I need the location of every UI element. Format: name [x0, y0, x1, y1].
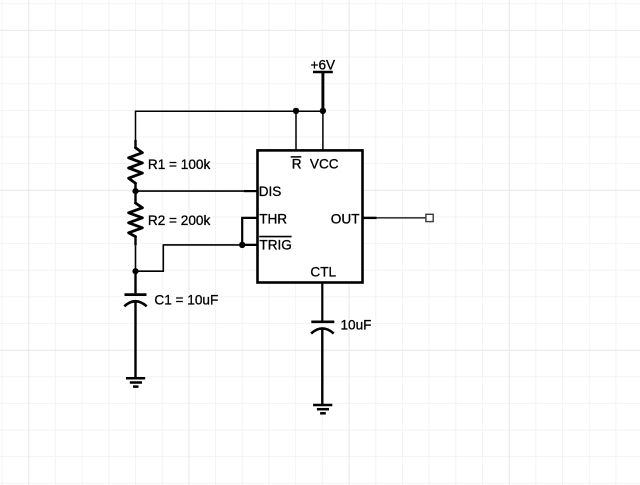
pin stub TRIG: [242, 244, 259, 246]
wire node A to DIS pin: [136, 190, 244, 192]
wire VCC pin to top rail: [322, 111, 324, 150]
ground symbol (left): [126, 378, 145, 386]
svg-text:C1 = 10uF: C1 = 10uF: [154, 293, 218, 308]
node junction dot at VCC tap: [320, 108, 326, 114]
svg-text:R1 = 100k: R1 = 100k: [148, 157, 211, 172]
port terminal square at OUT: [426, 214, 433, 221]
capacitor C1: [124, 271, 146, 378]
svg-text:THR: THR: [259, 211, 287, 226]
power +6V bar symbol: [313, 71, 333, 73]
resistor R2: [129, 191, 143, 245]
wire R2 to node B: [135, 245, 137, 271]
wire R-bar pin to top rail: [295, 111, 297, 150]
svg-text:CTL: CTL: [310, 264, 336, 279]
svg-text:+6V: +6V: [311, 58, 336, 73]
svg-text:R: R: [292, 156, 302, 171]
pin label R-bar (reset): [291, 156, 302, 171]
svg-text:VCC: VCC: [310, 156, 339, 171]
node junction dot at TRIG/THR tie: [239, 242, 245, 248]
resistor R1: [129, 140, 143, 191]
wire CTL pin down to C2: [321, 283, 323, 321]
pin label TRIG (with overline): [259, 237, 292, 253]
pin stub DIS: [244, 190, 259, 192]
node junction dot at R-bar tap: [293, 108, 299, 114]
wire OUT to port: [377, 217, 426, 219]
node A junction dot (R1/R2/DIS): [132, 188, 138, 194]
pin stub OUT: [362, 217, 376, 219]
ground symbol (right): [313, 405, 332, 413]
wire THR pin to TRIG node: [242, 218, 259, 245]
power +6V lead wire: [321, 72, 324, 111]
svg-text:10uF: 10uF: [341, 317, 372, 332]
node B junction dot (R2/C1/TRIG): [132, 268, 138, 274]
svg-text:OUT: OUT: [331, 211, 360, 226]
wire node B to TRIG (step): [136, 245, 243, 271]
svg-text:TRIG: TRIG: [259, 238, 291, 253]
svg-text:R2 = 200k: R2 = 200k: [148, 213, 211, 228]
svg-text:DIS: DIS: [259, 184, 282, 199]
op-amp/timer IC U1 box: [258, 150, 363, 282]
wire top rail from R1 to VCC: [136, 111, 323, 140]
capacitor C2 (10uF at CTL): [311, 322, 334, 405]
